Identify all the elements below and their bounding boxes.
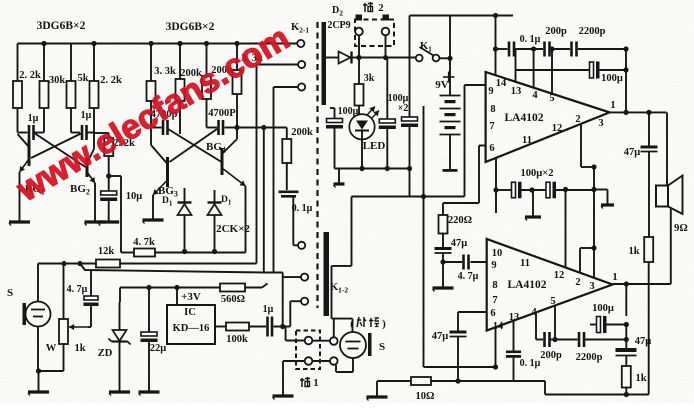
node junction on top rail x=237 [234, 41, 239, 46]
label 47u [624, 147, 641, 158]
resistor 1k (amp1 zobel) [644, 237, 653, 262]
node junction capB/rail [407, 166, 412, 171]
label LA4102 U1 [505, 112, 544, 124]
wire 10ohm run [377, 381, 545, 395]
label 4700p [151, 109, 178, 120]
svg-text:S: S [7, 287, 13, 299]
node junction IC/rail [174, 285, 179, 290]
resistor 10ohm [411, 377, 431, 385]
wire 200p net [536, 339, 626, 341]
node junction LED/rail [359, 166, 364, 171]
pin 3 label [598, 118, 603, 129]
label 4.7k [133, 237, 155, 248]
mic jack contact a [330, 337, 338, 345]
node junction R8/4700P [234, 125, 239, 130]
wire 200k top corner [286, 128, 288, 140]
wire zobel2 mid [625, 325, 627, 349]
wire A 12k run [38, 263, 257, 265]
wire 0.1u to bottom [513, 358, 515, 381]
node junction 2.2k/10u [106, 173, 111, 178]
wire cross-couple to BG1 base [31, 134, 81, 159]
svg-text:0. 1μ: 0. 1μ [520, 34, 541, 45]
svg-text:12k: 12k [98, 246, 115, 257]
watermark www.elecfans.com [10, 19, 296, 210]
svg-text:1μ: 1μ [28, 113, 39, 124]
node junction on top rail x=44 [41, 41, 46, 46]
ground plug1b [273, 396, 294, 400]
ground 22u [139, 392, 160, 396]
wire long vertical x594 [593, 167, 595, 278]
IC KD-16 box [167, 305, 215, 344]
label BG3 [158, 185, 178, 199]
wire drop x=263.8 [263, 128, 265, 273]
pin 3 label U2 [589, 281, 594, 292]
node junction output/bootstrap [623, 110, 628, 115]
label 200p [545, 26, 567, 37]
node junction mic/pot [36, 368, 41, 373]
svg-text:2200p: 2200p [579, 26, 606, 37]
wire amp2 output [613, 283, 671, 285]
op-amp U1 LA4102 triangle [486, 72, 610, 162]
node junction output/drop [261, 125, 266, 130]
wire pin4 drop [533, 49, 535, 88]
switch K1 [416, 47, 440, 61]
ground 10ohm [367, 397, 388, 401]
node junction topcap corner [623, 46, 628, 51]
svg-text:100μ×2: 100μ×2 [521, 168, 554, 179]
capacitor 4.7u [464, 255, 469, 270]
node junction x594 top [591, 164, 596, 169]
node junction D1b [212, 249, 217, 254]
wire bootstrap drop to amp2 [565, 190, 567, 268]
wire 10ohm left ground [376, 381, 378, 397]
wire 1u to node [274, 326, 291, 328]
svg-text:4: 4 [532, 90, 538, 101]
pin 13 label [511, 86, 522, 97]
label 200k [211, 65, 233, 76]
terminal circle K2-1 a [297, 40, 304, 47]
svg-text:6: 6 [490, 308, 495, 319]
svg-text:11: 11 [520, 258, 530, 269]
label 3k [364, 73, 375, 84]
plug 2 pin right [383, 15, 390, 21]
wire R7 drop to 4700P [207, 99, 218, 128]
ground BG3 emitter [143, 220, 164, 224]
potentiometer W 1k [59, 319, 88, 344]
wire pin14 to supply [495, 16, 497, 76]
node junction x594/248 [591, 245, 596, 250]
capacitor 10u electrolytic [100, 176, 117, 222]
plug 2 contact right [382, 28, 390, 36]
resistor 200k [176, 79, 185, 101]
svg-text:5: 5 [549, 93, 554, 104]
label LED [363, 140, 386, 152]
wire rail end drop [409, 169, 411, 197]
wire LED to rail [361, 140, 363, 169]
wire junction to feedback [109, 176, 121, 253]
wire to ground S [38, 371, 40, 392]
svg-text:4. 7k: 4. 7k [133, 237, 155, 248]
resistor 30k [40, 81, 49, 108]
label 1u [28, 113, 39, 124]
microphone S external [340, 332, 372, 358]
battery 9V [440, 58, 461, 172]
wire pin6 net U2 [458, 312, 487, 331]
wire zobel2 top [625, 284, 627, 316]
wire supply top [410, 15, 514, 17]
wire ext mic bottom [336, 358, 353, 372]
diode D2 2CP9 [339, 52, 360, 64]
wire 200k bottom [286, 163, 288, 190]
wire topcap run a [496, 48, 508, 50]
pin 12 label [552, 123, 563, 134]
label 100u [338, 106, 359, 117]
pin 2 label [575, 114, 580, 125]
label 200k [291, 127, 313, 138]
node junction x423/midrun [421, 194, 426, 199]
wire rail drop R8 [236, 44, 238, 71]
svg-text:1k: 1k [74, 343, 85, 354]
svg-text:14: 14 [496, 78, 507, 89]
svg-text:8: 8 [492, 280, 497, 291]
ground branch [601, 205, 614, 209]
capacitor 0.1u to ground [279, 191, 299, 198]
wire pin10 stub U2 [495, 190, 497, 213]
terminal circle K2-1 b [298, 61, 305, 68]
svg-text:10μ: 10μ [126, 191, 143, 202]
op-amp U2 LA4102 triangle [487, 239, 613, 331]
wire rail end ground stub [338, 169, 340, 185]
resistor 2.2k (BG1 collector) [13, 81, 22, 108]
node junction supply/pin14 [493, 13, 498, 18]
pin 7 label [489, 121, 494, 132]
svg-text:2CK×2: 2CK×2 [216, 223, 250, 235]
jack bar K2-1 [322, 22, 327, 105]
svg-text:2CP9: 2CP9 [327, 20, 350, 31]
svg-text:7: 7 [489, 121, 494, 132]
svg-text:30k: 30k [49, 75, 66, 86]
label 0.1u top [520, 34, 541, 45]
label 47u pin9 [451, 238, 468, 249]
wire plug2 right pin down [385, 36, 387, 58]
label S ext [379, 341, 385, 353]
wire topcap run c [551, 48, 570, 50]
pin 1 label U2 [612, 272, 617, 283]
zener ZD [109, 302, 131, 392]
node junction 47u/4.7u [440, 259, 445, 264]
svg-text:+3V: +3V [181, 291, 201, 303]
svg-text:13: 13 [511, 86, 522, 97]
node junction pin4 top [531, 46, 536, 51]
wire 47u ground drop [442, 262, 444, 288]
svg-text:9Ω: 9Ω [674, 223, 688, 234]
svg-text:0. 1μ: 0. 1μ [520, 358, 541, 369]
wire dashed plug boundary [316, 22, 318, 308]
plug 插1 dashed box [296, 331, 320, 370]
label ZD [98, 348, 113, 359]
wire pot top [63, 264, 65, 320]
capacitor 100u (jack side) [326, 108, 343, 169]
label K2-1 [291, 22, 309, 35]
svg-text:22μ: 22μ [150, 343, 167, 354]
wire mic drop [37, 264, 39, 303]
capacitor 1u coupling BG2 [82, 125, 87, 140]
label 220ohm [448, 215, 472, 226]
node junction pin10 [493, 187, 498, 192]
svg-text:3: 3 [589, 281, 594, 292]
wire R6 drop tail [179, 101, 181, 134]
pin 14 label [496, 78, 507, 89]
resistor 200k (output divider) [282, 139, 291, 163]
svg-text:W: W [46, 343, 57, 354]
svg-text:11: 11 [522, 135, 532, 146]
wire K1 to battery node [440, 57, 451, 59]
node junction battery top [447, 56, 452, 61]
terminal circle K1-2 c [301, 298, 308, 305]
label 1u [81, 110, 92, 121]
terminal circle K1-2 b [301, 274, 308, 281]
svg-text:4700P: 4700P [208, 108, 236, 119]
svg-text:IC: IC [184, 307, 196, 318]
label 200p amp2 [540, 350, 562, 361]
label BG2 [70, 183, 90, 197]
ground 100u x2 mid [525, 217, 541, 221]
pin 2 label U2 [575, 277, 580, 288]
wire terminal K1-2 c [290, 301, 300, 326]
wire R8 drop [236, 94, 238, 128]
label D2 [332, 5, 343, 18]
wire pin5 drop [551, 49, 553, 94]
capacitor 200p [545, 42, 550, 57]
plug 1 contact b [305, 357, 313, 365]
node junction on top rail x=151 [148, 41, 153, 46]
pin 11 label U2 [520, 258, 530, 269]
capacitor 2200p [572, 42, 577, 57]
label 插2 [363, 2, 384, 14]
svg-text:2. 2k: 2. 2k [100, 75, 122, 86]
wire pin13 drop [515, 49, 517, 82]
node junction lower caps b [563, 187, 568, 192]
capacitor 1u out [268, 317, 273, 337]
capacitor 4700p [163, 120, 168, 135]
label 100u x2 [388, 93, 409, 114]
capacitor 22u [141, 288, 158, 393]
label 9V [435, 79, 449, 91]
wire R3 drop [71, 108, 80, 133]
capacitor 100u bootstrap [590, 62, 600, 79]
wire plug1a bridge [313, 340, 330, 342]
svg-text:100μ: 100μ [601, 73, 623, 84]
node junction 2200p/zobel2 [624, 337, 629, 342]
node junction on top rail x=180 [177, 41, 182, 46]
label 1k amp2 [635, 373, 646, 384]
svg-text:5: 5 [550, 296, 555, 307]
node junction D1a [182, 249, 187, 254]
svg-text:LED: LED [363, 140, 386, 152]
node junction pin14/topcaps [493, 46, 498, 51]
node junction pin5 top [549, 46, 554, 51]
plug 1 contact a [305, 337, 313, 345]
ground BG1 emitter [9, 222, 30, 226]
microphone S [23, 302, 51, 327]
label 3.3k [154, 66, 176, 77]
pin 6 label U2 [490, 308, 495, 319]
wire topcap run d [578, 48, 626, 50]
svg-text:10Ω: 10Ω [416, 391, 435, 402]
resistor 5k [67, 81, 76, 108]
wire bottom rail [545, 394, 649, 396]
label 100u [601, 73, 623, 84]
label 9ohm [674, 223, 688, 234]
capacitor 47u pin6 [450, 331, 467, 382]
ground 10u [98, 222, 119, 226]
wire rail drop R1 [17, 44, 19, 82]
wire 4.7k net [121, 252, 246, 254]
label 插1 [300, 377, 319, 389]
wire 3V rail [120, 284, 268, 288]
pin 8 label [490, 104, 495, 115]
svg-text:1k: 1k [635, 373, 646, 384]
diode D1 right (2CK) [208, 190, 222, 252]
svg-text:5k: 5k [77, 73, 88, 84]
ground ZD [109, 392, 130, 396]
capacitor 0.1u top [509, 42, 514, 57]
wire B run [80, 264, 283, 273]
svg-text:ZD: ZD [98, 348, 113, 359]
svg-text:3. 3k: 3. 3k [154, 66, 176, 77]
pin 14 label U2 [493, 321, 504, 332]
LED [349, 107, 379, 140]
svg-text:1k: 1k [628, 246, 639, 257]
svg-text:200k: 200k [291, 127, 313, 138]
svg-text:3DG6B×2: 3DG6B×2 [37, 20, 86, 32]
resistor 200k [202, 76, 211, 99]
svg-text:47μ: 47μ [432, 331, 449, 342]
svg-text:2: 2 [378, 3, 383, 14]
wire rail drop R2 [43, 44, 45, 82]
svg-text:1: 1 [612, 272, 617, 283]
node junction D2/3k [356, 55, 361, 60]
transistor BG2 [86, 133, 96, 223]
resistor 12k [96, 260, 120, 268]
terminal circle K2-1 d [298, 242, 305, 249]
wire topcap run b [516, 48, 544, 50]
label 100u x2 lower [521, 168, 554, 179]
label 4.7u fb [67, 284, 88, 295]
svg-text:12: 12 [552, 123, 563, 134]
label 100k [226, 334, 248, 345]
capacitor 0.1u amp2 [506, 351, 521, 358]
svg-text:4. 7μ: 4. 7μ [458, 271, 479, 282]
pin 13 label U2 [509, 312, 520, 323]
plug 2 pin left [356, 15, 363, 21]
mic jack contact b [330, 357, 338, 365]
ground negative rail [334, 184, 345, 188]
node junction lower caps a [529, 187, 534, 192]
svg-text:200p: 200p [540, 350, 562, 361]
wire K1 feed [359, 57, 416, 59]
wire pin14 net U2 [424, 327, 496, 367]
wire cross-couple to BG4 base [168, 129, 222, 162]
label K1-2 [330, 282, 348, 295]
label 3DG6B x2 (first) [37, 20, 86, 32]
wire 0.1u tap to terminal [293, 198, 298, 246]
svg-text:47μ: 47μ [635, 336, 652, 347]
wire 100u x2 lower run [496, 189, 594, 191]
wire rail drop R4 [93, 44, 95, 82]
wire mic bottom [37, 327, 39, 372]
pin 4 label U2 [531, 307, 537, 318]
wire lower mid run [352, 196, 465, 198]
svg-text:LA4102: LA4102 [505, 112, 544, 124]
terminal circle K2-1 c [298, 83, 305, 90]
wire 4.7u run [443, 261, 487, 263]
node junction on top rail x=94 [91, 41, 96, 46]
wire to K1-2 terminal b [283, 276, 301, 278]
label 5k [77, 73, 88, 84]
node junction output2 [624, 281, 629, 286]
wire output to 200k vertical [237, 127, 287, 129]
ground BG2 emitter [85, 222, 106, 226]
plug 2 contact left [355, 28, 363, 36]
wire rail drop R5 [150, 44, 152, 82]
node junction 100u/zobel2 [624, 322, 629, 327]
wire plug2 left pin down [358, 36, 360, 58]
svg-text:1μ: 1μ [263, 304, 274, 315]
label 100u amp2 [592, 303, 614, 314]
pin 8 label U2 [492, 280, 497, 291]
wire pin2 net U2 [580, 248, 594, 273]
wire cap1 to R2 node [35, 108, 45, 133]
capacitor 100u A [379, 58, 396, 169]
svg-text:2200p: 2200p [576, 352, 603, 363]
wire cross-couple to BG2 base [35, 134, 86, 168]
wire terminal-c left-down [274, 87, 299, 274]
svg-text:S: S [379, 341, 385, 353]
wire BG1 collector node [18, 108, 28, 133]
label LA4102 U2 [508, 279, 547, 291]
wire plug1a left [286, 327, 305, 341]
svg-text:10: 10 [492, 248, 503, 259]
wire cap2 to R4 node [88, 108, 95, 133]
resistor 2.2k (BG2 emitter branch) [104, 138, 113, 156]
pin 12 label U2 [554, 270, 565, 281]
label S mic [7, 287, 13, 299]
svg-text:1μ: 1μ [81, 110, 92, 121]
pin 9 label [488, 86, 493, 97]
svg-text:1: 1 [313, 378, 318, 389]
pin 9 label U2 [491, 260, 496, 271]
capacitor 47u output [641, 112, 658, 237]
node junction pin5/net [552, 337, 557, 342]
pin 5 label U2 [550, 296, 555, 307]
diode D1 left (2CK) [178, 188, 192, 252]
svg-text:(: ( [350, 318, 354, 330]
label 4700P [208, 108, 236, 119]
wire cross-couple to BG3 base [170, 129, 218, 162]
svg-text:1: 1 [610, 100, 615, 111]
label 47u pin6 [432, 331, 449, 342]
node junction output/47u [646, 110, 651, 115]
svg-text:9V: 9V [435, 79, 449, 91]
label 2.2k [19, 70, 41, 81]
pin 5 label [549, 93, 554, 104]
svg-text:220Ω: 220Ω [448, 215, 472, 226]
node junction 47u/10ohm [455, 378, 460, 383]
wire jack to D2 [326, 57, 339, 59]
label 12k [98, 246, 115, 257]
node junction x594/190 [591, 187, 596, 192]
